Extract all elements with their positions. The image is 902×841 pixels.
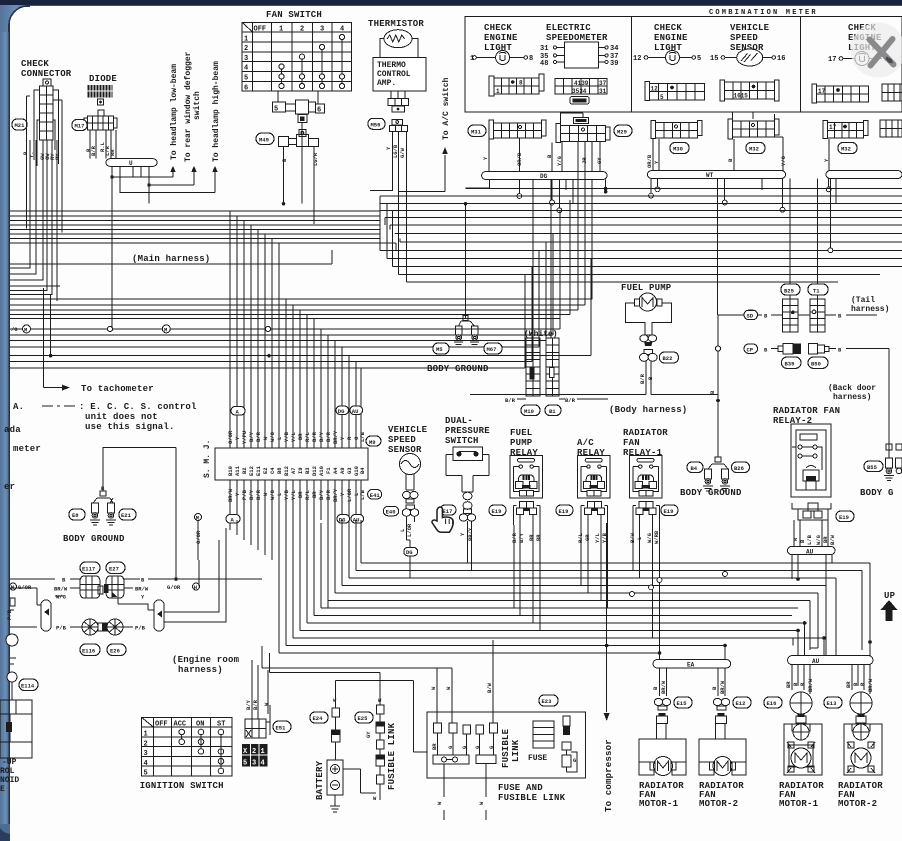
connector M10 tall grid: [526, 338, 540, 396]
wire fan switch drop: [301, 122, 303, 203]
svg-text:CHECK: CHECK: [654, 23, 682, 33]
svg-text:S. M. J.: S. M. J.: [203, 440, 212, 478]
pill DG below vss: [404, 547, 418, 556]
wires B25 T1 tops: [790, 295, 818, 299]
connector B39 B50 pair: [771, 344, 836, 355]
wires AU top down: [792, 555, 832, 586]
svg-text:17: 17: [829, 124, 837, 131]
svg-text:L/B: L/B: [806, 534, 813, 545]
svg-text:OR/B: OR/B: [646, 154, 653, 168]
svg-text:BR: BR: [528, 534, 535, 541]
bus DG: [482, 172, 607, 180]
stubs below WT bus: [651, 178, 783, 314]
svg-text:A7: A7: [290, 467, 297, 474]
oval E19 d: [836, 511, 854, 522]
svg-text:switch: switch: [193, 91, 202, 120]
svg-text:T1: T1: [813, 288, 820, 295]
svg-text:E114: E114: [21, 683, 35, 690]
wires U bus to arrows: [112, 166, 149, 185]
lamp CHECK ENGINE LIGHT 3: [828, 23, 888, 66]
oval M32a: [746, 143, 765, 154]
svg-text:M5: M5: [436, 346, 443, 353]
svg-text:3: 3: [144, 750, 148, 758]
svg-text:BR: BR: [845, 681, 852, 688]
svg-text:U: U: [129, 160, 133, 167]
oval M56: [368, 118, 385, 129]
svg-text:17: 17: [818, 88, 826, 95]
wires diode to U bus: [90, 130, 116, 159]
svg-text:M29: M29: [617, 129, 627, 136]
svg-text:VEHICLE: VEHICLE: [730, 23, 770, 33]
svg-text:BR/W: BR/W: [54, 586, 68, 593]
svg-text:B4: B4: [359, 467, 366, 474]
wire staircase left drops from SMJ pins: [230, 520, 361, 653]
oval E25: [355, 712, 373, 723]
svg-text:BR/W: BR/W: [867, 678, 874, 692]
svg-text:5: 5: [243, 760, 247, 768]
motor RADIATOR FAN MOTOR-2: [699, 724, 746, 776]
wire right vertical feeds: [793, 563, 870, 656]
oval E117: [80, 562, 100, 574]
oval M10: [521, 405, 540, 416]
svg-text:48: 48: [540, 60, 548, 68]
wire long check vertical to junction: [50, 295, 52, 356]
oval M21: [12, 119, 27, 130]
labels BR/W W/G: [55, 588, 80, 596]
svg-text:Y/G: Y/G: [556, 155, 563, 166]
svg-text:RR: RR: [109, 149, 116, 156]
svg-text:Y/L: Y/L: [290, 431, 297, 442]
oval E114: [19, 679, 38, 691]
svg-text:B/R: B/R: [311, 431, 318, 442]
pill AU bottom: [351, 515, 364, 524]
connector partial right edge: [896, 444, 902, 474]
top navy bar: [0, 0, 902, 5]
svg-text:WT: WT: [706, 172, 714, 179]
svg-text:CONTROL: CONTROL: [377, 70, 411, 79]
wire relay drops to staircase: [468, 521, 660, 653]
oval E41: [368, 490, 382, 500]
fuse symbols right: [562, 716, 577, 772]
svg-text:FUSIBLE LINK: FUSIBLE LINK: [498, 793, 566, 803]
svg-text:15: 15: [710, 55, 718, 63]
svg-text:LG/B: LG/B: [392, 144, 399, 158]
box ELECTRIC SPEEDOMETER: [540, 23, 618, 68]
connector M17 body: [84, 110, 117, 130]
svg-text:5: 5: [274, 106, 278, 114]
svg-text:1615: 1615: [734, 93, 749, 100]
svg-text:BR/Y: BR/Y: [332, 488, 339, 502]
svg-text:SPEED: SPEED: [388, 435, 416, 445]
connector E19 b: [581, 501, 607, 525]
svg-text:A.: A.: [13, 402, 24, 412]
svg-text:E25: E25: [358, 715, 369, 722]
ground B55: [888, 455, 890, 458]
svg-text:BODY GROUND: BODY GROUND: [63, 534, 125, 544]
svg-text:DIODE: DIODE: [89, 74, 117, 84]
wires into fuse box: [262, 640, 493, 752]
connector M29 body: [556, 113, 610, 143]
oval E19 b: [556, 505, 573, 516]
wires AU top to relay2: [794, 520, 828, 547]
oval M49: [256, 133, 274, 145]
svg-text:P/B: P/B: [135, 625, 146, 632]
svg-text:E40: E40: [386, 509, 396, 516]
svg-text:GY: GY: [596, 157, 603, 164]
svg-text:2: 2: [244, 45, 248, 53]
svg-text:B8: B8: [276, 467, 283, 474]
svg-text:E8: E8: [72, 512, 79, 519]
svg-text:BR: BR: [311, 491, 318, 498]
svg-text:ELECTRIC: ELECTRIC: [546, 23, 591, 33]
bus EA: [653, 660, 731, 669]
svg-text:To headlamp high-beam: To headlamp high-beam: [212, 61, 221, 162]
wires EA top: [660, 646, 726, 660]
connector grid CM-4 partial: [882, 84, 902, 101]
svg-text:B/Y: B/Y: [518, 532, 525, 543]
connector M32b body: [823, 121, 868, 139]
wire band2 check connector returns: [10, 140, 57, 301]
svg-text:G3: G3: [346, 467, 353, 474]
oval B26: [732, 462, 750, 473]
box partial left bottom component: [0, 700, 32, 758]
svg-text:L/B: L/B: [359, 431, 366, 442]
wire below main harness: [10, 250, 332, 286]
svg-text:5: 5: [144, 770, 148, 778]
wires M32b down: [828, 139, 830, 171]
cursor hand pointer: [432, 507, 453, 532]
svg-text:OFF: OFF: [254, 26, 267, 34]
wires M49 down: [284, 147, 315, 225]
svg-text:Y/PU: Y/PU: [241, 431, 248, 444]
svg-text:LINK: LINK: [511, 739, 521, 762]
oval E21: [119, 509, 136, 520]
svg-text:W/G: W/G: [269, 489, 276, 500]
connector 5-6 bar: [272, 100, 324, 122]
oval M32b: [838, 143, 857, 154]
svg-text:E: E: [0, 785, 5, 794]
svg-text:DG: DG: [540, 173, 548, 180]
oval M67: [484, 343, 502, 354]
svg-text:E15: E15: [677, 700, 688, 707]
svg-text:NOID: NOID: [0, 776, 19, 785]
svg-text:B10: B10: [227, 466, 234, 476]
svg-text:SWITCH: SWITCH: [445, 436, 479, 446]
svg-text:6: 6: [244, 85, 248, 93]
svg-text:E19: E19: [492, 508, 502, 515]
svg-text:D12: D12: [311, 466, 318, 476]
svg-text:W/G: W/G: [56, 594, 67, 601]
svg-text:(Main harness): (Main harness): [132, 254, 210, 264]
long vertical from U junction down: [112, 177, 149, 328]
svg-text:COMBINATION METER: COMBINATION METER: [709, 9, 818, 17]
svg-text:1: 1: [144, 731, 148, 739]
svg-text:B55: B55: [867, 464, 878, 471]
wires fuel pump to body harness line: [646, 370, 651, 395]
oval B25: [781, 284, 800, 295]
wires M30 down: [653, 139, 659, 171]
ground BODY GROUND E8 E21: [90, 485, 116, 525]
svg-text:(Body harness): (Body harness): [609, 405, 687, 415]
svg-text:harness): harness): [833, 393, 871, 402]
svg-text:R/L: R/L: [304, 431, 311, 442]
connector M21 body: [40, 79, 54, 140]
svg-text:ACC: ACC: [174, 721, 187, 729]
svg-text:E27: E27: [109, 566, 119, 573]
wire to headlamp low-beam arrow: [112, 168, 173, 177]
svg-text:BR/W: BR/W: [135, 586, 149, 593]
svg-text:RADIATOR FAN: RADIATOR FAN: [773, 406, 840, 416]
svg-text:(Engine room: (Engine room: [172, 655, 240, 665]
connector E27 body: [104, 576, 124, 598]
svg-text:12: 12: [651, 86, 659, 93]
fusible link W battery column: [332, 681, 341, 760]
svg-text:BODY GROUND: BODY GROUND: [427, 364, 489, 374]
svg-text:4: 4: [144, 760, 148, 768]
junction circles band3: [107, 326, 112, 331]
oval M5: [433, 343, 449, 354]
svg-text:(Back door: (Back door: [828, 384, 876, 393]
svg-text:E117: E117: [82, 566, 95, 573]
svg-text:8: 8: [519, 80, 523, 87]
svg-text:M17: M17: [75, 123, 85, 130]
wire SMJ curtain verticals: [230, 211, 361, 448]
SMJ pin name labels: [227, 465, 366, 476]
oval E12: [733, 697, 751, 708]
svg-text:3: 3: [320, 26, 324, 34]
oval B22: [659, 352, 678, 363]
svg-text:31: 31: [540, 45, 548, 53]
oval SD: [744, 310, 758, 319]
junction dots staircase: [605, 644, 609, 648]
svg-text:M31: M31: [471, 129, 482, 136]
left edge connector fragments: [6, 598, 37, 700]
svg-text:harness): harness): [851, 305, 889, 314]
svg-text:E19: E19: [664, 508, 674, 515]
wire staircase band SMJ to right: [279, 563, 870, 653]
SMJ wire color labels above: [227, 430, 366, 444]
oval M9: [366, 436, 381, 446]
svg-text:BR: BR: [431, 743, 438, 750]
svg-text:8: 8: [529, 55, 533, 63]
box THERMO CONTROL AMP: [373, 58, 426, 91]
connector B25 grid: [782, 299, 798, 332]
svg-text:To rear window defogger: To rear window defogger: [184, 51, 193, 162]
wire to tachometer: [43, 288, 62, 388]
svg-text:RELAY: RELAY: [510, 448, 538, 458]
svg-text:B1: B1: [549, 408, 556, 415]
connector B1 tall grid: [546, 338, 559, 396]
wire bracket around check connector: [34, 90, 59, 166]
svg-text:4: 4: [244, 65, 248, 73]
svg-text:E12: E12: [248, 466, 255, 476]
connector grid CM-left: [489, 74, 544, 96]
svg-text:THERMO: THERMO: [377, 61, 406, 70]
svg-text:B/Y: B/Y: [245, 699, 252, 710]
svg-text:3: 3: [244, 55, 248, 63]
svg-text:B4: B4: [691, 465, 698, 472]
connector fuel pump lower B22: [640, 350, 658, 371]
oval CP: [744, 344, 758, 353]
svg-text:DG: DG: [338, 408, 345, 415]
svg-text:F1: F1: [325, 467, 332, 474]
svg-text:EA: EA: [687, 662, 695, 669]
connector E117 body: [80, 576, 103, 598]
wires M31 down to DG bus: [489, 138, 520, 172]
svg-text:BR/W: BR/W: [227, 488, 234, 502]
svg-text:B22: B22: [663, 355, 673, 362]
svg-text:M56: M56: [371, 121, 381, 128]
svg-text:B12: B12: [283, 466, 290, 476]
svg-text:W/G: W/G: [646, 532, 653, 543]
svg-text:P/B: P/B: [6, 609, 13, 620]
connector grid CM-2: [645, 82, 705, 102]
svg-text:SD: SD: [747, 312, 754, 319]
oval E16: [764, 697, 782, 708]
svg-text:B26: B26: [734, 465, 744, 472]
svg-text:SPEED: SPEED: [730, 33, 758, 43]
svg-text:1: 1: [496, 88, 500, 95]
svg-text:AU: AU: [812, 658, 820, 665]
svg-text:3534: 3534: [572, 88, 587, 95]
bus WT: [648, 171, 786, 179]
wires check connector down: [30, 140, 57, 224]
connector E40 pair: [402, 505, 418, 516]
connector pressure switch: [459, 492, 475, 521]
svg-text:ada: ada: [4, 425, 21, 435]
wires right pill to SMJ: [133, 528, 226, 622]
svg-text:E116: E116: [82, 648, 95, 655]
svg-text:Y/L: Y/L: [290, 489, 297, 500]
svg-text:G/OR: G/OR: [227, 430, 234, 444]
svg-text:Y/G: Y/G: [780, 155, 787, 166]
svg-text:3: 3: [252, 760, 256, 768]
table IGNITION SWITCH: [142, 718, 233, 778]
oval B39: [781, 357, 801, 368]
svg-text:E16: E16: [767, 700, 777, 707]
svg-text:/G: /G: [11, 326, 18, 333]
svg-text:FUSIBLE: FUSIBLE: [501, 728, 511, 768]
svg-text:I9: I9: [297, 467, 304, 474]
svg-text:A11: A11: [234, 465, 241, 476]
wire band3 right end bends up: [525, 142, 592, 369]
oval M17: [72, 120, 87, 131]
svg-text:H: H: [194, 584, 197, 591]
wire lower right band: [380, 250, 902, 282]
oval B4: [687, 462, 703, 473]
top-left rounded corner: [0, 5, 30, 32]
svg-text:Y/B: Y/B: [283, 489, 290, 500]
motor RADIATOR FAN MOTOR-1 right: [784, 692, 822, 775]
svg-text:To compressor: To compressor: [604, 739, 614, 812]
svg-text:RADIATOR: RADIATOR: [623, 428, 668, 438]
svg-text:ST: ST: [217, 721, 225, 729]
svg-text:E11: E11: [255, 465, 262, 476]
svg-text:B/Y: B/Y: [318, 489, 325, 500]
svg-text:THERMISTOR: THERMISTOR: [368, 19, 424, 29]
oval E24: [310, 712, 328, 723]
svg-text:MOTOR-2: MOTOR-2: [699, 799, 738, 809]
svg-text:5: 5: [244, 75, 248, 83]
svg-text:B/W: B/W: [486, 682, 493, 693]
oval M29: [614, 125, 632, 137]
switch contact circles: [339, 34, 344, 39]
svg-text:39: 39: [610, 60, 618, 68]
svg-text:C4: C4: [269, 467, 276, 474]
svg-text:LG/R: LG/R: [312, 152, 319, 166]
svg-text:A9: A9: [339, 467, 346, 474]
stubs below right bus: [790, 178, 836, 298]
svg-text:G/OR: G/OR: [167, 584, 181, 591]
wire To compressor: [606, 523, 608, 712]
oval E19 c: [661, 505, 678, 516]
svg-text:A4: A4: [332, 467, 339, 474]
svg-text:B/Y: B/Y: [248, 431, 255, 442]
svg-text:PUMP: PUMP: [510, 438, 533, 448]
svg-text:To A/C switch: To A/C switch: [442, 77, 451, 140]
svg-text:RELAY: RELAY: [577, 448, 605, 458]
wire band1 left tight bundle: [10, 211, 396, 243]
svg-text:E13: E13: [827, 700, 838, 707]
oval E8: [69, 509, 85, 520]
wire SD row: [718, 314, 877, 316]
svg-text:FUEL PUMP: FUEL PUMP: [621, 283, 672, 293]
svg-text:16: 16: [777, 55, 785, 63]
oval B1: [545, 405, 561, 416]
svg-text:R/L: R/L: [304, 489, 311, 500]
svg-text:5: 5: [697, 55, 701, 63]
oval B50: [808, 357, 828, 368]
svg-text:BR: BR: [535, 534, 542, 541]
motor RADIATOR FAN MOTOR-2 right: [844, 692, 882, 775]
labels BR/W Y right: [118, 588, 133, 604]
svg-text:M49: M49: [259, 137, 269, 144]
svg-text:B50: B50: [811, 361, 821, 368]
svg-text:E24: E24: [313, 715, 324, 722]
pill A top: [231, 407, 245, 416]
svg-text:Y/B: Y/B: [283, 431, 290, 442]
lamp CHECK ENGINE LIGHT 1: [470, 23, 533, 65]
svg-text:A10: A10: [318, 466, 325, 476]
connector under thermo amp: [388, 91, 409, 112]
svg-text:M30: M30: [673, 146, 683, 153]
svg-text:GY: GY: [365, 731, 372, 738]
svg-text:B/Y: B/Y: [248, 489, 255, 500]
connector E15: [654, 698, 670, 723]
oval E19 a: [489, 505, 506, 516]
svg-text:W/G: W/G: [269, 431, 276, 442]
svg-text:4: 4: [261, 760, 265, 768]
connector arrow pill left: [10, 588, 51, 631]
SMJ pin wires through box: [230, 420, 361, 520]
wire body harness boundary: [470, 394, 718, 396]
wire to rear window defogger arrow: [149, 168, 194, 185]
svg-text:1: 1: [279, 26, 283, 34]
fusible links inside box: [431, 723, 498, 820]
connector M49 body: [279, 130, 319, 147]
ground BODY GROUND M5 M67: [454, 315, 479, 347]
oval M17b under cursor: [440, 505, 456, 515]
svg-text:E12: E12: [736, 700, 746, 707]
svg-text:BR: BR: [785, 681, 792, 688]
svg-text:BR/W: BR/W: [807, 678, 814, 692]
wire SD CP left vertical: [717, 315, 719, 346]
svg-text:AMP.: AMP.: [377, 79, 396, 88]
connector E51: [245, 705, 270, 738]
svg-text:M9: M9: [369, 439, 376, 446]
connector E19 c: [633, 501, 659, 525]
svg-text:IGNITION SWITCH: IGNITION SWITCH: [140, 781, 224, 791]
